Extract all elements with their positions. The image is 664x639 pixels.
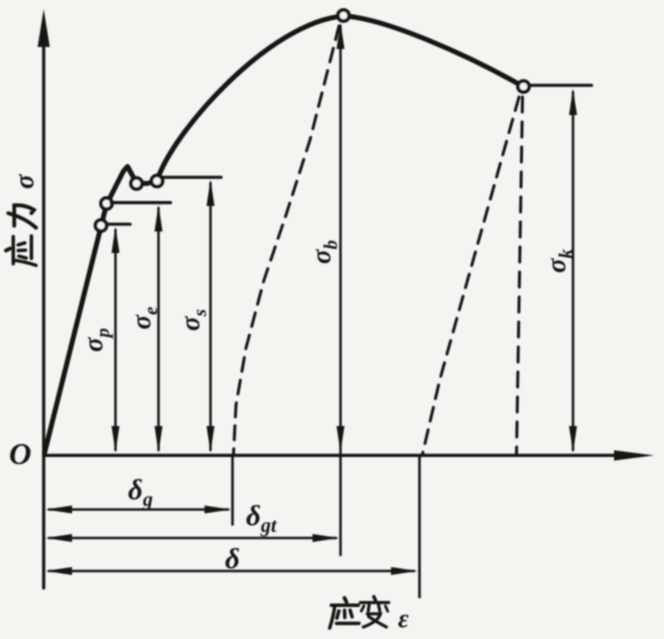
tick at sigma_s level — [161, 176, 221, 179]
data point circle (proportional limit) — [95, 220, 106, 231]
svg-text:δ: δ — [225, 543, 240, 575]
label sigma_k — [541, 248, 577, 273]
data point circle (fracture point) — [518, 81, 529, 92]
y-axis — [38, 9, 50, 588]
tick at sigma_k level — [529, 84, 592, 87]
tick at sigma_p level — [107, 223, 130, 226]
dashed vertical line from fracture point — [517, 97, 523, 454]
data point circle (lower yield) — [151, 175, 162, 186]
sigma_k dimension arrow — [569, 89, 577, 453]
extension line below axis at delta_g end — [231, 455, 234, 524]
y-axis label 应力 σ (rotated) — [6, 173, 39, 265]
dashed unloading line from fracture point — [423, 97, 520, 454]
tick at sigma_e level — [111, 201, 171, 204]
data point circle (ultimate strength peak) — [338, 10, 349, 21]
delta dimension arrow — [46, 567, 418, 575]
extension line below axis at delta end — [418, 455, 421, 597]
sigma_p dimension arrow — [112, 227, 120, 453]
data point circle (elastic limit) — [101, 198, 112, 209]
data point circle (upper yield) — [131, 178, 142, 189]
sigma_b dimension arrow (extends below axis) — [337, 23, 345, 556]
label sigma_e — [126, 306, 162, 330]
svg-text:σ: σ — [9, 173, 39, 189]
sigma_e dimension arrow — [155, 205, 163, 453]
svg-text:ε: ε — [398, 604, 409, 633]
main stress-strain curve — [45, 16, 524, 453]
label sigma_p — [78, 328, 114, 352]
x-axis — [44, 450, 654, 460]
delta_gt dimension arrow — [46, 534, 340, 542]
sigma_s dimension arrow — [207, 180, 215, 453]
x-axis label 应变 ε — [330, 597, 409, 633]
label sigma_s — [175, 309, 211, 331]
svg-text:O: O — [9, 436, 31, 471]
dashed unloading line from peak — [234, 26, 340, 454]
label sigma_b — [306, 240, 342, 264]
delta_g dimension arrow — [46, 506, 232, 514]
